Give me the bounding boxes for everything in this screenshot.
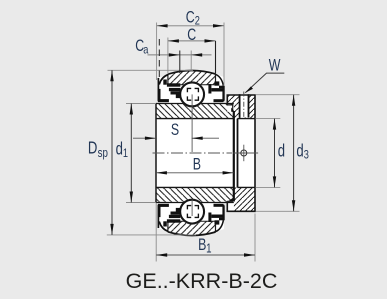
svg-text:B: B	[193, 156, 201, 174]
svg-text:C: C	[187, 26, 196, 44]
svg-text:S: S	[171, 122, 179, 140]
svg-text:GE..-KRR-B-2C: GE..-KRR-B-2C	[126, 269, 278, 293]
svg-text:W: W	[269, 57, 281, 75]
svg-text:d: d	[278, 142, 285, 161]
